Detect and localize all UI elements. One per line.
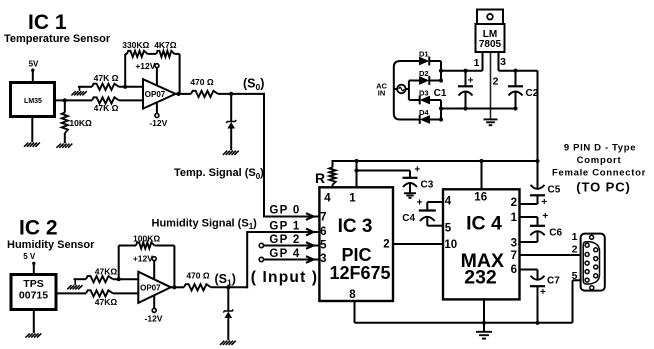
svg-text:5: 5 <box>320 240 327 252</box>
svg-text:D4: D4 <box>419 108 429 117</box>
svg-text:LM35: LM35 <box>24 98 42 105</box>
svg-text:8: 8 <box>349 289 356 301</box>
svg-text:2: 2 <box>511 197 517 209</box>
svg-text:7805: 7805 <box>479 39 502 50</box>
svg-text:470 Ω: 470 Ω <box>186 271 210 281</box>
svg-text:3: 3 <box>320 253 326 265</box>
svg-text:+: + <box>542 211 548 222</box>
svg-text:R: R <box>315 170 325 186</box>
svg-text:C3: C3 <box>421 179 434 190</box>
svg-text:TPS: TPS <box>23 278 43 290</box>
svg-text:9 PIN D - Type: 9 PIN D - Type <box>564 142 636 153</box>
svg-text:IC 3: IC 3 <box>338 216 373 237</box>
svg-text:330KΩ: 330KΩ <box>122 40 149 50</box>
svg-text:Comport: Comport <box>577 155 622 166</box>
svg-text:470 Ω: 470 Ω <box>190 77 214 87</box>
svg-text:-12V: -12V <box>145 313 163 323</box>
svg-text:C7: C7 <box>547 276 560 287</box>
svg-text:5 V: 5 V <box>23 252 36 261</box>
svg-text:IC 1: IC 1 <box>28 11 67 34</box>
svg-text:GP 1: GP 1 <box>269 221 300 233</box>
svg-text:5: 5 <box>445 222 452 234</box>
svg-text:4K7Ω: 4K7Ω <box>154 40 177 50</box>
svg-text:7: 7 <box>511 250 517 262</box>
svg-text:5V: 5V <box>29 60 39 69</box>
svg-text:100KΩ: 100KΩ <box>133 234 160 244</box>
svg-text:D1: D1 <box>419 49 429 58</box>
svg-text:00715: 00715 <box>19 290 48 302</box>
svg-text:6: 6 <box>511 264 517 276</box>
svg-text:GP 2: GP 2 <box>269 234 300 246</box>
svg-text:Humidity Sensor: Humidity Sensor <box>7 239 95 251</box>
svg-text:C6: C6 <box>549 227 562 238</box>
svg-text:47KΩ: 47KΩ <box>95 297 118 307</box>
svg-text:1: 1 <box>474 57 480 69</box>
svg-text:GP 0: GP 0 <box>269 204 300 216</box>
svg-text:+: + <box>414 165 420 176</box>
svg-text:1: 1 <box>572 231 578 243</box>
svg-text:2: 2 <box>383 238 389 250</box>
svg-text:D3: D3 <box>419 88 429 97</box>
svg-text:4: 4 <box>324 193 331 205</box>
svg-text:C4: C4 <box>402 213 415 224</box>
svg-text:( Input ): ( Input ) <box>251 269 319 286</box>
svg-text:IC 2: IC 2 <box>19 216 58 239</box>
svg-text:GP 4: GP 4 <box>269 248 300 260</box>
svg-text:Female Connector: Female Connector <box>552 167 646 178</box>
svg-text:Temperature Sensor: Temperature Sensor <box>4 33 111 45</box>
svg-text:PIC: PIC <box>341 245 371 265</box>
svg-text:Humidity Signal (S1): Humidity Signal (S1) <box>152 217 258 231</box>
svg-text:+: + <box>468 76 474 87</box>
svg-text:IC 4: IC 4 <box>466 213 502 235</box>
svg-text:47K Ω: 47K Ω <box>94 73 119 83</box>
svg-text:+: + <box>541 197 547 208</box>
svg-text:7: 7 <box>320 211 326 223</box>
svg-text:3: 3 <box>500 56 506 68</box>
svg-text:+: + <box>417 197 423 208</box>
svg-text:16: 16 <box>474 192 487 204</box>
svg-text:+: + <box>540 287 546 298</box>
svg-text:-12V: -12V <box>149 118 167 128</box>
svg-text:D2: D2 <box>419 69 429 78</box>
svg-text:OP07: OP07 <box>145 90 166 99</box>
svg-text:2: 2 <box>493 76 499 88</box>
svg-text:C2: C2 <box>526 88 539 99</box>
svg-text:1: 1 <box>511 212 518 224</box>
svg-text:OP07: OP07 <box>140 284 161 293</box>
svg-text:2: 2 <box>572 244 578 256</box>
svg-text:(S1): (S1) <box>215 272 236 288</box>
svg-text:(S0): (S0) <box>243 77 264 93</box>
svg-text:C1: C1 <box>434 88 447 99</box>
svg-text:IN: IN <box>378 88 386 97</box>
svg-text:1: 1 <box>349 193 356 205</box>
svg-text:232: 232 <box>464 267 497 289</box>
svg-text:12F675: 12F675 <box>329 263 390 283</box>
svg-text:47K Ω: 47K Ω <box>94 103 119 113</box>
svg-text:Temp. Signal (S0): Temp. Signal (S0) <box>174 167 264 181</box>
svg-text:10: 10 <box>444 239 457 251</box>
svg-text:5: 5 <box>572 270 578 282</box>
svg-text:C5: C5 <box>548 185 561 196</box>
svg-text:4: 4 <box>445 196 452 208</box>
svg-text:6: 6 <box>320 226 326 238</box>
svg-text:+12V: +12V <box>135 61 155 71</box>
svg-text:10KΩ: 10KΩ <box>69 118 92 128</box>
svg-text:3: 3 <box>511 238 517 250</box>
svg-text:47KΩ: 47KΩ <box>95 267 118 277</box>
svg-text:+12V: +12V <box>133 254 153 264</box>
svg-text:(TO PC): (TO PC) <box>576 180 630 195</box>
